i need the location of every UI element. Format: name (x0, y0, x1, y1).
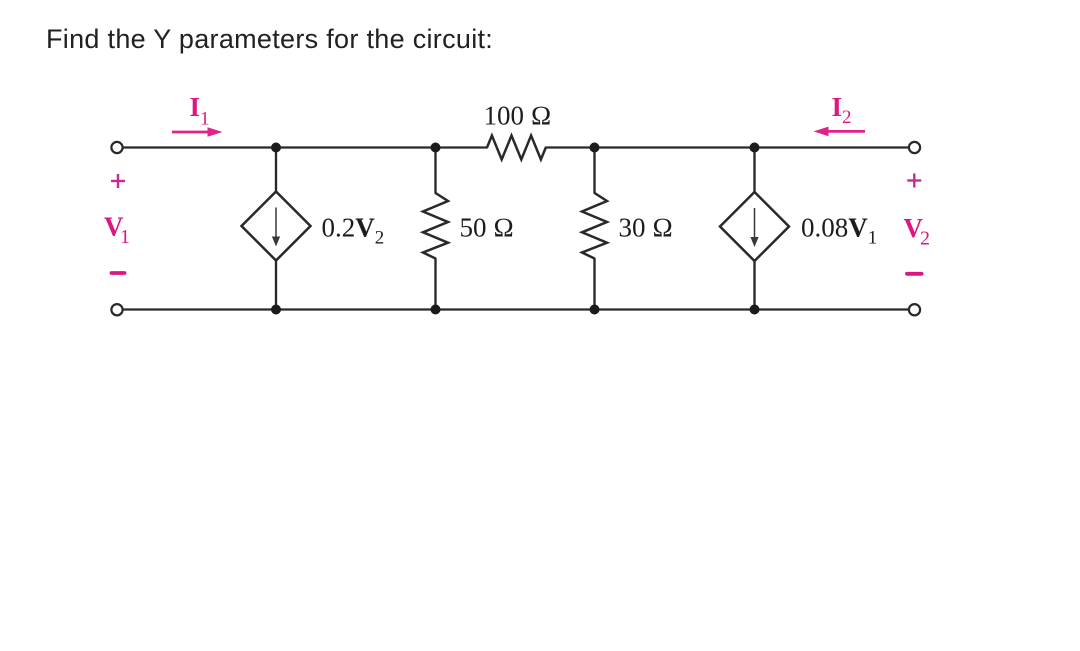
svg-text:V2: V2 (904, 213, 931, 250)
svg-text:0.08V1: 0.08V1 (801, 213, 877, 249)
svg-text:I2: I2 (832, 92, 852, 128)
svg-text:30 Ω: 30 Ω (619, 213, 674, 243)
svg-text:I1: I1 (190, 92, 210, 130)
svg-text:V1: V1 (104, 212, 130, 249)
svg-text:100 Ω: 100 Ω (484, 101, 552, 131)
svg-text:50 Ω: 50 Ω (460, 213, 515, 243)
svg-text:0.2V2: 0.2V2 (322, 213, 385, 249)
